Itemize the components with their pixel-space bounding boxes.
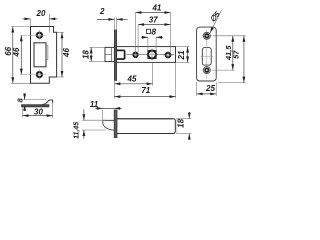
svg-text:18: 18 <box>177 118 186 127</box>
svg-text:25: 25 <box>205 84 215 93</box>
svg-text:45: 45 <box>127 75 137 84</box>
svg-text:46: 46 <box>12 47 21 57</box>
svg-text:41: 41 <box>151 4 161 13</box>
svg-text:2: 2 <box>99 7 105 16</box>
svg-text:46: 46 <box>62 48 71 58</box>
svg-text:37: 37 <box>149 15 158 24</box>
svg-text:30: 30 <box>34 108 43 117</box>
svg-text:21: 21 <box>177 50 186 60</box>
svg-text:71: 71 <box>141 86 150 95</box>
svg-text:8: 8 <box>151 27 156 37</box>
svg-text:57: 57 <box>231 50 240 59</box>
svg-text:11: 11 <box>90 100 99 109</box>
svg-text:11,45: 11,45 <box>74 122 81 139</box>
svg-text:18: 18 <box>82 50 91 59</box>
svg-text:20: 20 <box>36 9 46 18</box>
